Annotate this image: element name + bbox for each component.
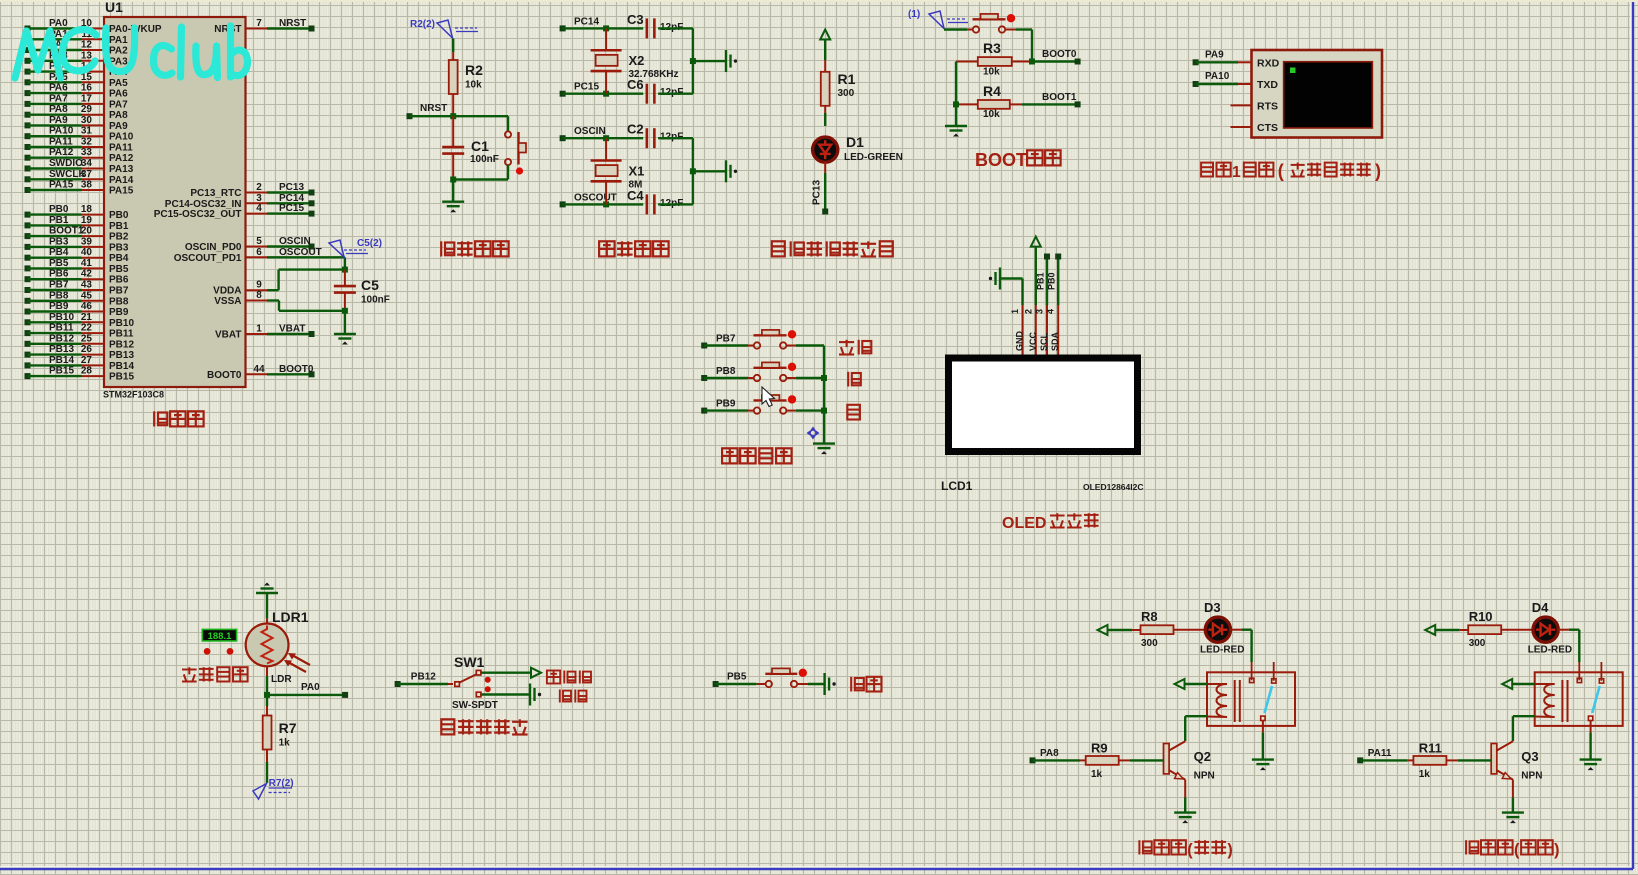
svg-text:OSCOUT: OSCOUT	[574, 192, 617, 203]
svg-text:SW1: SW1	[454, 654, 485, 670]
ground 刷卡 button	[825, 673, 836, 695]
pin PB15 (28) with wire and terminal	[25, 366, 135, 383]
wire keys ground bus	[821, 346, 827, 444]
pin PB6 (42) with wire and terminal	[25, 269, 129, 286]
svg-text:PA9: PA9	[1205, 50, 1224, 61]
wire PC14 row	[563, 25, 644, 31]
pin SWCLK (37) with wire and terminal	[25, 169, 134, 186]
svg-text:LDR: LDR	[271, 674, 292, 685]
svg-text:PB5: PB5	[727, 672, 747, 683]
svg-text:PB13: PB13	[49, 344, 74, 355]
pin PB8 (45) with wire and terminal	[25, 290, 129, 307]
net label R2(2) (blue marker)	[410, 19, 478, 38]
svg-text:BOOT0: BOOT0	[1042, 49, 1077, 60]
svg-text:C5: C5	[361, 277, 379, 293]
svg-text:X2: X2	[629, 53, 645, 68]
resistor R3 10k	[956, 40, 1032, 78]
svg-text:PA2: PA2	[109, 46, 128, 57]
svg-text:BOOT0: BOOT0	[279, 364, 314, 375]
svg-text:BOOT1: BOOT1	[49, 226, 84, 237]
label 光照调节	[182, 667, 248, 681]
mouse cursor	[762, 387, 775, 407]
svg-text:100nF: 100nF	[470, 154, 499, 165]
svg-text:2: 2	[256, 182, 262, 193]
svg-text:OSCOUT_PD1: OSCOUT_PD1	[174, 253, 242, 264]
svg-text:PA6: PA6	[49, 83, 68, 94]
ground for X1	[726, 160, 737, 182]
svg-text:PB0: PB0	[1047, 272, 1057, 290]
pin NRST (7) net NRST	[214, 18, 314, 35]
capacitor C6 12pF	[627, 77, 683, 104]
pin PB3 (39) with wire and terminal	[25, 236, 129, 253]
svg-text:2: 2	[1023, 309, 1033, 314]
pin BOOT1 (20) with wire and terminal	[25, 226, 129, 243]
svg-text:PB9: PB9	[716, 399, 736, 410]
svg-text:D4: D4	[1532, 600, 1549, 615]
svg-text:44: 44	[253, 364, 265, 375]
svg-text:PA8: PA8	[49, 104, 68, 115]
svg-text:): )	[1227, 841, 1232, 859]
svg-text:SDA: SDA	[1050, 331, 1060, 351]
svg-text:R7(2): R7(2)	[269, 778, 294, 789]
svg-text:R4: R4	[983, 83, 1001, 99]
capacitor C4 12pF	[627, 188, 683, 215]
ground for X2	[726, 50, 737, 72]
svg-text:SCL: SCL	[1039, 332, 1049, 351]
svg-text:5: 5	[256, 236, 262, 247]
svg-text:PA10: PA10	[49, 126, 74, 137]
svg-text:PB11: PB11	[109, 329, 134, 340]
wire D1 to PC13 terminal	[812, 162, 829, 215]
pin PB7 (43) with wire and terminal	[25, 280, 129, 297]
svg-text:BOOT0: BOOT0	[207, 370, 242, 381]
svg-text:PA11: PA11	[109, 143, 133, 154]
power arrow at relay coil	[1175, 679, 1208, 689]
capacitor C3 12pF	[627, 12, 683, 39]
crystal X1 8M	[591, 138, 645, 204]
pin PA2 (12) with wire and terminal	[25, 40, 129, 57]
svg-text:PA12: PA12	[109, 153, 134, 164]
svg-text:D3: D3	[1204, 600, 1221, 615]
svg-text:1: 1	[1010, 309, 1020, 314]
svg-text:1: 1	[256, 324, 262, 335]
svg-text:LED-RED: LED-RED	[1528, 645, 1572, 656]
svg-text:32.768KHz: 32.768KHz	[629, 69, 679, 80]
svg-text:C2: C2	[627, 122, 644, 137]
capacitor C1 100nF	[442, 116, 499, 182]
label 复位电路	[441, 241, 508, 256]
terminal OSCOUT	[560, 192, 617, 207]
svg-text:(: (	[1278, 161, 1285, 181]
label 继电器(照明)	[1139, 840, 1232, 859]
svg-text:PB13: PB13	[109, 350, 134, 361]
pin PA4 (14) with wire and terminal	[25, 61, 129, 78]
svg-text:R9: R9	[1091, 741, 1108, 756]
pin PA8 (29) with wire and terminal	[25, 104, 129, 121]
svg-text:D1: D1	[846, 134, 864, 150]
svg-text:PB8: PB8	[109, 296, 129, 307]
svg-text:U1: U1	[105, 0, 123, 15]
mcu U1 STM32F103C8 body	[103, 0, 246, 400]
svg-text:7: 7	[256, 18, 262, 29]
ground below C5	[334, 311, 356, 345]
svg-text:PA15: PA15	[109, 186, 134, 197]
svg-text:16: 16	[81, 83, 93, 94]
svg-text:PB15: PB15	[109, 372, 134, 383]
wire C2 to bus	[658, 137, 693, 139]
svg-text:PA10: PA10	[1205, 71, 1230, 82]
pin VBAT (1) net VBAT	[215, 324, 314, 341]
svg-text:PA8: PA8	[1040, 748, 1059, 759]
resistor R4 10k	[956, 83, 1022, 120]
MCUclub logo (cyan)	[15, 26, 248, 78]
relay coil+switch for 继电器(车锁)	[1535, 662, 1623, 726]
svg-text:PB8: PB8	[716, 366, 736, 377]
pin SWDIO (34) with wire and terminal	[25, 158, 134, 175]
resistor R11 1k	[1357, 741, 1491, 781]
svg-text:PA7: PA7	[109, 99, 128, 110]
svg-text:3: 3	[1035, 309, 1045, 314]
svg-text:100nF: 100nF	[361, 295, 390, 306]
terminal OSCIN	[560, 126, 606, 141]
label 设置	[839, 340, 871, 355]
pin PA6 (16) with wire and terminal	[25, 83, 129, 100]
svg-text:1: 1	[1232, 164, 1241, 181]
svg-text:NPN: NPN	[1194, 771, 1215, 782]
pushbutton 刷卡	[716, 668, 825, 687]
svg-text:R3: R3	[983, 40, 1001, 56]
svg-text:NRST: NRST	[420, 103, 447, 114]
boot pushbutton	[944, 14, 1032, 62]
transistor Q2 NPN	[1164, 744, 1215, 782]
svg-text:PB12: PB12	[109, 339, 134, 350]
svg-text:PB3: PB3	[109, 242, 129, 253]
pin PB9 (46) with wire and terminal	[25, 301, 129, 318]
pin PA1 (11) with wire and terminal	[25, 29, 129, 46]
wire BOOT1 net	[1022, 92, 1081, 107]
svg-text:43: 43	[81, 280, 93, 291]
svg-text:C3: C3	[627, 12, 644, 27]
svg-text:PB4: PB4	[49, 247, 69, 258]
ground BOOT divider	[945, 126, 967, 137]
svg-text:(: (	[1514, 841, 1520, 859]
svg-text:26: 26	[81, 344, 93, 355]
svg-text:(: (	[1187, 841, 1193, 859]
svg-text:PA1: PA1	[109, 35, 128, 46]
svg-text:188.1: 188.1	[208, 631, 232, 642]
wire D3 to relay	[1230, 630, 1252, 662]
svg-text:C5(2): C5(2)	[357, 238, 382, 249]
svg-text:SWDIO: SWDIO	[49, 158, 83, 169]
net label (1) blue marker	[908, 9, 968, 29]
svg-text:12: 12	[81, 40, 93, 51]
svg-text:PB10: PB10	[109, 318, 134, 329]
wire button to C1	[453, 165, 508, 180]
wire D4 to relay	[1558, 630, 1580, 662]
transistor Q3 NPN	[1491, 744, 1542, 782]
svg-text:OSCIN: OSCIN	[279, 236, 311, 247]
svg-text:20: 20	[81, 226, 93, 237]
svg-text:PC13_RTC: PC13_RTC	[190, 188, 241, 199]
svg-text:27: 27	[81, 355, 93, 366]
pushbutton PB8	[704, 362, 824, 381]
pushbutton PB7	[704, 330, 824, 349]
svg-text:OSCIN_PD0: OSCIN_PD0	[185, 242, 242, 253]
svg-text:PC15-OSC32_OUT: PC15-OSC32_OUT	[154, 209, 242, 220]
svg-text:PA12: PA12	[49, 147, 74, 158]
wire R3-R4 left bus	[953, 62, 959, 127]
label 触发	[560, 690, 587, 703]
svg-text:PA13: PA13	[109, 164, 134, 175]
label 主芯片	[154, 411, 203, 426]
power arrow left of R10	[1425, 625, 1460, 635]
terminal PB7	[701, 334, 736, 349]
svg-text:PB9: PB9	[49, 301, 69, 312]
light level display 188.1	[202, 629, 236, 641]
power symbol above R1	[820, 30, 830, 61]
wire OSCIN row	[563, 135, 644, 141]
wire relay coil to Q2 collector	[1169, 716, 1207, 750]
svg-text:PA9: PA9	[109, 121, 128, 132]
ground Q2 emitter	[1174, 780, 1196, 824]
svg-text:PB7: PB7	[716, 334, 736, 345]
label 红外避障管	[441, 719, 527, 734]
svg-text:Q3: Q3	[1521, 749, 1538, 764]
pin PC15-OSC32_OUT (4) net PC15	[154, 203, 315, 220]
svg-text:PB15: PB15	[49, 366, 74, 377]
wire C4 to bus	[658, 203, 693, 205]
svg-text:PB10: PB10	[49, 312, 74, 323]
svg-text:NRST: NRST	[279, 18, 306, 29]
svg-text:10k: 10k	[983, 109, 1000, 120]
svg-text:33: 33	[81, 147, 93, 158]
svg-text:1k: 1k	[279, 738, 291, 749]
label 串口1窗口（模拟手机端）	[1201, 161, 1381, 181]
ground below C1	[442, 180, 464, 213]
svg-text:RTS: RTS	[1257, 101, 1278, 113]
svg-text:31: 31	[81, 126, 93, 137]
svg-text:29: 29	[81, 104, 93, 115]
pin PA3 (13) with wire and terminal	[25, 50, 129, 67]
pin VSSA (8) wire	[214, 290, 345, 311]
svg-text:45: 45	[81, 290, 93, 301]
svg-text:R2(2): R2(2)	[410, 19, 435, 30]
svg-text:22: 22	[81, 323, 93, 334]
svg-text:PA11: PA11	[49, 137, 73, 148]
svg-text:LCD1: LCD1	[941, 479, 973, 493]
svg-text:PA8: PA8	[109, 110, 128, 121]
svg-text:19: 19	[81, 215, 93, 226]
svg-text:PB4: PB4	[109, 253, 129, 264]
label 刷卡	[851, 677, 881, 692]
svg-text:BOOT: BOOT	[975, 150, 1027, 170]
svg-text:PB2: PB2	[109, 232, 129, 243]
svg-text:PB0: PB0	[49, 204, 69, 215]
svg-text:PB14: PB14	[49, 355, 74, 366]
terminal PB9	[701, 399, 736, 414]
pin PB0 (18) with wire and terminal	[25, 204, 129, 221]
svg-text:18: 18	[81, 204, 93, 215]
ground (up) above LDR1	[256, 583, 278, 619]
svg-text:PA15: PA15	[49, 180, 74, 191]
label 程序运行指示灯	[772, 241, 893, 256]
resistor R9 1k	[1030, 741, 1164, 781]
svg-text:41: 41	[81, 258, 93, 269]
wire ground bus near X2	[690, 28, 726, 93]
led D3 LED-RED	[1200, 600, 1244, 656]
resistor R2 10k	[449, 39, 483, 117]
svg-text:Q2: Q2	[1194, 749, 1211, 764]
pin BOOT0 (44) net BOOT0	[207, 364, 314, 381]
svg-text:OSCOUT: OSCOUT	[279, 247, 322, 258]
pin PA15 (38) with wire and terminal	[25, 180, 134, 197]
pin PB11 (22) with wire and terminal	[25, 323, 134, 340]
svg-text:OSCIN: OSCIN	[574, 126, 606, 137]
svg-text:PB8: PB8	[49, 290, 69, 301]
wire OSCOUT row	[563, 201, 644, 207]
svg-text:R11: R11	[1419, 741, 1442, 756]
wire relay coil to Q3 collector	[1497, 716, 1535, 750]
relay coil+switch for 继电器(照明)	[1207, 662, 1295, 726]
wire ground bus near X1	[690, 138, 726, 204]
svg-text:39: 39	[81, 236, 93, 247]
ground OLED	[989, 268, 1000, 290]
svg-text:R1: R1	[838, 71, 856, 87]
power arrow at relay coil	[1502, 679, 1535, 689]
pin PA10 (31) with wire and terminal	[25, 126, 134, 143]
svg-text:OLED: OLED	[1002, 515, 1046, 532]
switch SW1 SW-SPDT	[398, 654, 498, 711]
svg-text:PC13: PC13	[812, 180, 823, 205]
svg-text:PB5: PB5	[49, 258, 69, 269]
svg-text:46: 46	[81, 301, 93, 312]
led D4 LED-RED	[1528, 600, 1572, 656]
svg-text:37: 37	[81, 169, 93, 180]
pin PA5 (15) with wire and terminal	[25, 72, 129, 89]
svg-text:GND: GND	[1015, 331, 1025, 352]
lcd pin 3 SCL to PB1	[1035, 254, 1051, 355]
pin PB14 (27) with wire and terminal	[25, 355, 135, 372]
svg-text:PB6: PB6	[49, 269, 69, 280]
svg-text:PA0: PA0	[301, 682, 320, 693]
wire LDR to PA0	[264, 666, 348, 698]
capacitor C5 100nF	[334, 267, 390, 314]
svg-text:OLED12864I2C: OLED12864I2C	[1083, 482, 1143, 492]
svg-text:PC14: PC14	[574, 16, 599, 27]
svg-text:10k: 10k	[983, 67, 1000, 78]
terminal PC14	[560, 16, 600, 31]
pin CTS stub	[1231, 126, 1252, 128]
svg-text:PB0: PB0	[109, 210, 129, 221]
label OLED显示屏	[1002, 513, 1099, 532]
svg-text:40: 40	[81, 247, 93, 258]
label 独立按键	[722, 448, 792, 463]
led D1 LED-GREEN	[813, 113, 903, 163]
svg-text:VBAT: VBAT	[279, 324, 305, 335]
pin PA11 (32) with wire and terminal	[25, 137, 134, 154]
svg-text:8M: 8M	[629, 179, 643, 190]
power arrow left of R8	[1098, 625, 1133, 635]
svg-text:PB12: PB12	[411, 672, 436, 683]
svg-text:PB12: PB12	[49, 333, 74, 344]
svg-text:PA0: PA0	[49, 18, 68, 29]
origin marker (blue)	[807, 427, 820, 440]
svg-text:8: 8	[256, 290, 262, 301]
svg-text:LDR1: LDR1	[272, 609, 309, 625]
svg-text:R7: R7	[279, 720, 297, 736]
svg-text:30: 30	[81, 115, 93, 126]
ldr adjust buttons (red dots)	[204, 648, 234, 655]
wire PA9 to RXD	[1193, 50, 1252, 66]
svg-text:LED-GREEN: LED-GREEN	[844, 152, 903, 163]
svg-text:38: 38	[81, 180, 93, 191]
svg-text:STM32F103C8: STM32F103C8	[103, 390, 164, 400]
svg-text:34: 34	[81, 158, 93, 169]
pin RTS stub	[1231, 104, 1252, 106]
capacitor C2 12pF	[627, 122, 683, 149]
svg-text:NPN: NPN	[1521, 771, 1542, 782]
terminal PB12	[395, 672, 437, 688]
label BOOT电路	[975, 150, 1061, 170]
ground Q3 emitter	[1502, 780, 1524, 824]
svg-text:PB1: PB1	[1036, 272, 1046, 290]
svg-text:17: 17	[81, 93, 93, 104]
svg-text:21: 21	[81, 312, 93, 323]
svg-text:42: 42	[81, 269, 93, 280]
svg-text:PB7: PB7	[109, 286, 129, 297]
svg-text:R2: R2	[465, 62, 483, 78]
wire PA10 to TXD	[1193, 71, 1252, 87]
pin PA0 (10) with wire and terminal	[25, 18, 162, 35]
resistor R1 300	[821, 60, 856, 126]
svg-text:VCC: VCC	[1028, 331, 1038, 351]
net label R7(2) (blue marker)	[253, 778, 294, 799]
label 继电器(车锁)	[1466, 840, 1559, 859]
svg-text:PA7: PA7	[49, 93, 68, 104]
crystal X2 32.768KHz	[591, 28, 679, 93]
virtual terminal 串口1窗口	[1252, 50, 1383, 138]
svg-text:6: 6	[256, 247, 262, 258]
label 加	[848, 372, 861, 387]
svg-text:R10: R10	[1469, 609, 1493, 624]
svg-text:300: 300	[1141, 638, 1158, 649]
svg-text:28: 28	[81, 366, 93, 377]
svg-text:4: 4	[256, 203, 262, 214]
ldr LDR1	[246, 609, 310, 685]
pin PA12 (33) with wire and terminal	[25, 147, 134, 164]
svg-text:PB11: PB11	[49, 323, 74, 334]
svg-text:(1): (1)	[908, 9, 920, 20]
wire SW1 throw1 to power arrow	[481, 668, 541, 678]
wire C3 to bus	[658, 27, 693, 29]
lcd LCD1 OLED12864I2C display	[941, 358, 1143, 493]
svg-text:PB14: PB14	[109, 361, 134, 372]
resistor R7 1k	[263, 695, 297, 783]
pin PC14-OSC32_IN (3) net PC14	[165, 193, 315, 210]
pin OSCOUT_PD1 (6) wire to C5	[174, 247, 345, 270]
svg-text:PA6: PA6	[109, 89, 128, 100]
svg-text:PA14: PA14	[109, 175, 134, 186]
svg-text:VSSA: VSSA	[214, 296, 241, 307]
pin VDDA (9) wire	[213, 270, 345, 297]
resistor R8 300	[1132, 609, 1206, 649]
pin PB12 (25) with wire and terminal	[25, 333, 135, 350]
svg-text:32: 32	[81, 137, 93, 148]
svg-text:PB1: PB1	[49, 215, 69, 226]
svg-text:13: 13	[81, 50, 93, 61]
svg-text:PC15: PC15	[574, 82, 599, 93]
pushbutton PB9	[704, 395, 824, 414]
